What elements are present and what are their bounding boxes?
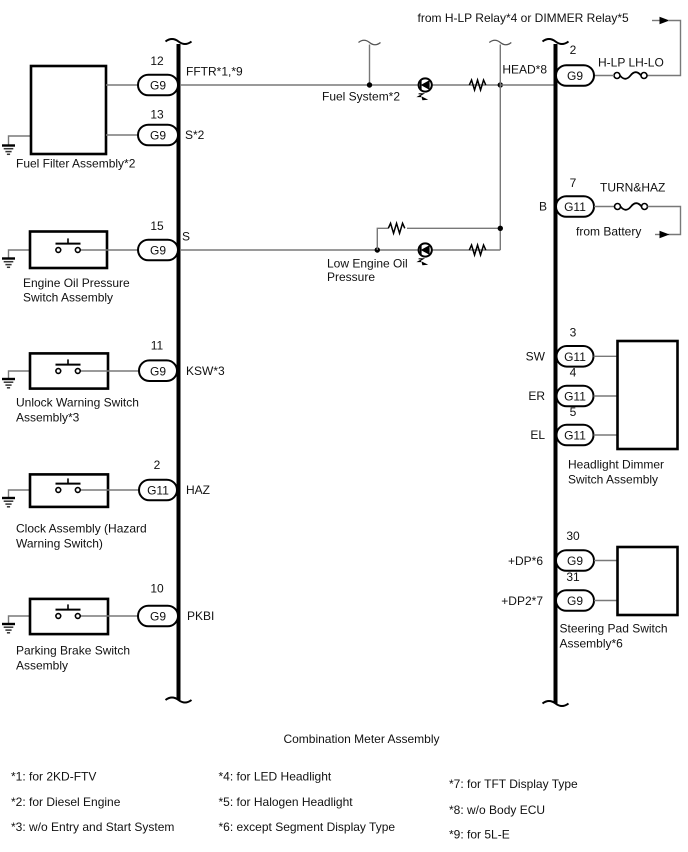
svg-text:Steering Pad Switch: Steering Pad Switch <box>560 622 668 636</box>
bypass resistor branch wire <box>377 228 500 250</box>
label Combination Meter Assembly <box>283 732 439 746</box>
svg-text:G9: G9 <box>567 594 583 608</box>
svg-text:*7: for TFT Display Type: *7: for TFT Display Type <box>449 777 578 791</box>
connector G9 pin 13 <box>138 125 178 146</box>
connector G9 pin 12 <box>138 75 178 96</box>
net label ER <box>528 389 545 403</box>
svg-text:12: 12 <box>150 54 164 68</box>
feed arrow from battery <box>655 231 670 239</box>
label H-LP LH-LO <box>598 56 664 70</box>
wire pin 5 to dimmer box <box>594 434 618 436</box>
label TURN&HAZ <box>600 181 665 195</box>
svg-text:*5: for Halogen Headlight: *5: for Halogen Headlight <box>219 795 354 809</box>
svg-text:S*2: S*2 <box>185 128 205 142</box>
feed wire corner from battery <box>648 207 681 235</box>
left bus bottom break mark <box>166 698 192 703</box>
svg-text:2: 2 <box>154 458 161 472</box>
svg-text:G11: G11 <box>564 350 586 364</box>
svg-text:*3: w/o Entry and Start System: *3: w/o Entry and Start System <box>11 820 174 834</box>
pin number 15 <box>150 219 164 233</box>
footnote *4 <box>219 770 332 784</box>
fuel filter assembly box <box>31 66 106 154</box>
label: Headlight Dimmer Switch Assembly <box>568 458 664 487</box>
svg-text:Engine Oil Pressure: Engine Oil Pressure <box>23 276 130 290</box>
break mark fuel system stub <box>359 40 381 45</box>
pin number 4 <box>570 366 577 380</box>
left bus (combination meter connector side) <box>177 44 181 700</box>
svg-text:G9: G9 <box>567 554 583 568</box>
net label +DP2*7 <box>501 594 543 608</box>
label Fuel System*2 <box>322 90 400 104</box>
svg-text:KSW*3: KSW*3 <box>186 364 225 378</box>
svg-text:Assembly*6: Assembly*6 <box>560 637 624 651</box>
headlight dimmer switch box <box>618 341 678 449</box>
LED fuel indicator <box>418 78 431 100</box>
svg-text:*9: for 5L-E: *9: for 5L-E <box>449 828 510 842</box>
svg-text:+DP*6: +DP*6 <box>508 554 543 568</box>
svg-text:TURN&HAZ: TURN&HAZ <box>600 181 665 195</box>
unlock warning switch box <box>30 353 108 388</box>
svg-text:Fuel Filter Assembly*2: Fuel Filter Assembly*2 <box>16 157 136 171</box>
footnote *8 <box>449 803 545 817</box>
right bus bottom break mark <box>543 701 569 706</box>
svg-text:Clock Assembly (Hazard: Clock Assembly (Hazard <box>16 522 147 536</box>
net label S*2 <box>185 128 205 142</box>
svg-text:Fuel System*2: Fuel System*2 <box>322 90 400 104</box>
net label HAZ <box>186 483 210 497</box>
connector G11 pin 2 <box>139 480 177 501</box>
svg-text:G11: G11 <box>564 429 586 443</box>
net label B <box>539 200 547 214</box>
connector G9 pin 31 <box>556 590 594 611</box>
junction low oil <box>375 247 380 252</box>
wire pin 4 to dimmer box <box>594 395 618 397</box>
wire box to connector pin 12 <box>106 84 138 86</box>
connector G9 pin 10 <box>138 606 178 627</box>
junction fuel system <box>367 82 372 87</box>
svg-text:*8: w/o Body ECU: *8: w/o Body ECU <box>449 803 545 817</box>
pin number 30 <box>566 529 580 543</box>
connector G11 pin 4 <box>557 386 594 407</box>
svg-text:G11: G11 <box>564 200 586 214</box>
footnote *6 <box>219 820 396 834</box>
net label +DP*6 <box>508 554 543 568</box>
svg-text:H-LP LH-LO: H-LP LH-LO <box>598 56 664 70</box>
junction HEAD lower <box>498 226 503 231</box>
svg-text:Pressure: Pressure <box>327 270 375 284</box>
label: Steering Pad Switch Assembly*6 <box>560 622 668 651</box>
pin number 12 <box>150 54 164 68</box>
svg-text:30: 30 <box>566 529 580 543</box>
pin number 10 <box>150 582 164 596</box>
svg-text:EL: EL <box>530 428 545 442</box>
wire fuse to connector pin 2 <box>594 75 614 77</box>
connector G9 pin 11 <box>139 360 177 381</box>
wire box to connector pin 13 <box>106 134 138 136</box>
connector G11 pin 7 <box>556 196 594 217</box>
svg-text:*4: for LED Headlight: *4: for LED Headlight <box>219 770 332 784</box>
svg-text:2: 2 <box>570 43 577 57</box>
connector G9 pin 15 <box>138 240 178 261</box>
pin number 31 <box>566 570 580 584</box>
svg-text:Low Engine Oil: Low Engine Oil <box>327 257 408 271</box>
pin number 5 <box>570 405 577 419</box>
wire pin 30 to steering box <box>594 560 618 562</box>
footnote *9 <box>449 828 510 842</box>
svg-text:Parking Brake Switch: Parking Brake Switch <box>16 644 130 658</box>
net label S <box>182 230 190 244</box>
HEAD vertical wire <box>499 45 501 251</box>
LED low oil pressure <box>418 243 431 265</box>
wire ground to parking brake switch <box>9 616 56 624</box>
svg-text:+DP2*7: +DP2*7 <box>501 594 543 608</box>
svg-text:Headlight Dimmer: Headlight Dimmer <box>568 458 664 472</box>
pin number 2 (HAZ) <box>154 458 161 472</box>
svg-text:Switch Assembly: Switch Assembly <box>568 473 658 487</box>
svg-text:4: 4 <box>570 366 577 380</box>
svg-text:*6: except Segment Display Typ: *6: except Segment Display Type <box>219 820 396 834</box>
resistor (bypass) <box>388 223 405 233</box>
ground (engine oil switch) <box>2 259 15 268</box>
wire FFTR from bus to HEAD node <box>180 84 500 86</box>
clock assembly (hazard) box <box>30 474 108 507</box>
switch contacts (unlock) <box>56 359 140 373</box>
right bus top break mark <box>543 39 569 44</box>
label: Engine Oil Pressure Switch Assembly <box>23 276 130 305</box>
steering pad switch box <box>618 547 678 615</box>
svg-text:31: 31 <box>566 570 580 584</box>
footnote *7 <box>449 777 578 791</box>
net label KSW*3 <box>186 364 225 378</box>
switch contacts (parking brake) <box>56 604 139 618</box>
label from H-LP Relay*4 or DIMMER Relay*5 <box>418 11 629 25</box>
wire pin 3 to dimmer box <box>594 355 618 357</box>
svg-text:7: 7 <box>570 176 577 190</box>
break mark HEAD stub <box>489 40 511 45</box>
resistor (fuel indicator) <box>469 80 486 90</box>
svg-text:G11: G11 <box>147 484 169 498</box>
pin number 7 <box>570 176 577 190</box>
svg-text:from H-LP Relay*4 or DIMMER Re: from H-LP Relay*4 or DIMMER Relay*5 <box>418 11 629 25</box>
footnote *1 <box>11 770 96 784</box>
ground (fuel filter) <box>2 146 15 155</box>
pin number 3 <box>570 326 577 340</box>
wire S from bus to low-oil network <box>180 249 500 251</box>
parking brake switch box <box>30 599 108 634</box>
svg-text:SW: SW <box>526 349 546 363</box>
label from Battery <box>576 225 641 239</box>
engine oil pressure switch box <box>30 232 107 269</box>
connector G11 pin 3 <box>557 346 594 367</box>
net label PKBI <box>187 609 214 623</box>
right bus (combination meter connector side) <box>554 44 558 704</box>
svg-text:*2: for Diesel Engine: *2: for Diesel Engine <box>11 795 121 809</box>
svg-text:*1: for 2KD-FTV: *1: for 2KD-FTV <box>11 770 96 784</box>
resistor (low oil) <box>469 245 486 255</box>
left bus top break mark <box>166 39 192 44</box>
wire HEAD to right bus <box>500 84 553 86</box>
ground (hazard switch) <box>2 498 15 507</box>
svg-text:G11: G11 <box>564 390 586 404</box>
label: Parking Brake Switch Assembly <box>16 644 130 673</box>
wire fuel system stub up <box>369 45 371 86</box>
svg-text:Warning Switch): Warning Switch) <box>16 537 103 551</box>
label: Clock Assembly (Hazard Warning Switch) <box>16 522 147 551</box>
wire ground to unlock switch <box>9 371 56 379</box>
junction HEAD top <box>498 82 503 87</box>
wire ground to engine oil switch <box>9 250 56 258</box>
svg-text:Unlock Warning Switch: Unlock Warning Switch <box>16 396 139 410</box>
pin number 2 (right bus) <box>570 43 577 57</box>
switch contacts (engine oil) <box>56 238 139 252</box>
svg-text:HEAD*8: HEAD*8 <box>502 63 547 77</box>
footnote *3 <box>11 820 174 834</box>
ground (parking brake switch) <box>2 624 15 633</box>
fuse H-LP LH-LO <box>614 72 647 79</box>
switch contacts (hazard) <box>56 478 140 492</box>
svg-text:G9: G9 <box>150 79 166 93</box>
footnote *5 <box>219 795 354 809</box>
svg-text:PKBI: PKBI <box>187 609 214 623</box>
svg-text:Combination Meter Assembly: Combination Meter Assembly <box>283 732 439 746</box>
svg-text:15: 15 <box>150 219 164 233</box>
wire pin 7 to fuse <box>594 206 615 208</box>
wire ground to hazard switch <box>9 490 56 498</box>
net label HEAD*8 <box>502 63 547 77</box>
label: Unlock Warning Switch Assembly*3 <box>16 396 139 425</box>
fuse TURN&HAZ <box>615 203 648 210</box>
pin number 13 <box>150 108 164 122</box>
svg-text:B: B <box>539 200 547 214</box>
svg-text:S: S <box>182 230 190 244</box>
label Low Engine Oil Pressure <box>327 257 408 285</box>
footnote *2 <box>11 795 121 809</box>
svg-text:G9: G9 <box>150 364 166 378</box>
svg-text:13: 13 <box>150 108 164 122</box>
connector G9 pin 2 (right bus) <box>556 65 594 86</box>
feed wire corner to H-LP fuse <box>648 21 681 76</box>
svg-text:10: 10 <box>150 582 164 596</box>
net label EL <box>530 428 545 442</box>
svg-text:from Battery: from Battery <box>576 225 641 239</box>
net label FFTR*1,*9 <box>186 65 243 79</box>
svg-text:ER: ER <box>528 389 545 403</box>
svg-text:11: 11 <box>151 339 164 353</box>
svg-text:Switch Assembly: Switch Assembly <box>23 291 113 305</box>
pin number 11 <box>151 339 164 353</box>
svg-text:5: 5 <box>570 405 577 419</box>
svg-text:Assembly: Assembly <box>16 659 68 673</box>
ground (unlock switch) <box>2 379 15 388</box>
svg-text:G9: G9 <box>150 244 166 258</box>
connector G9 pin 30 <box>556 550 594 571</box>
svg-text:G9: G9 <box>150 610 166 624</box>
connector G11 pin 5 <box>557 425 594 446</box>
feed arrow from H-LP relay <box>652 17 670 25</box>
svg-text:HAZ: HAZ <box>186 483 210 497</box>
svg-text:3: 3 <box>570 326 577 340</box>
svg-text:G9: G9 <box>150 129 166 143</box>
svg-text:Assembly*3: Assembly*3 <box>16 411 80 425</box>
wire pin 31 to steering box <box>594 600 618 602</box>
wire ground to fuel filter box <box>9 136 32 146</box>
net label SW <box>526 349 546 363</box>
svg-text:G9: G9 <box>567 69 583 83</box>
svg-text:FFTR*1,*9: FFTR*1,*9 <box>186 65 243 79</box>
label: Fuel Filter Assembly*2 <box>16 157 136 171</box>
